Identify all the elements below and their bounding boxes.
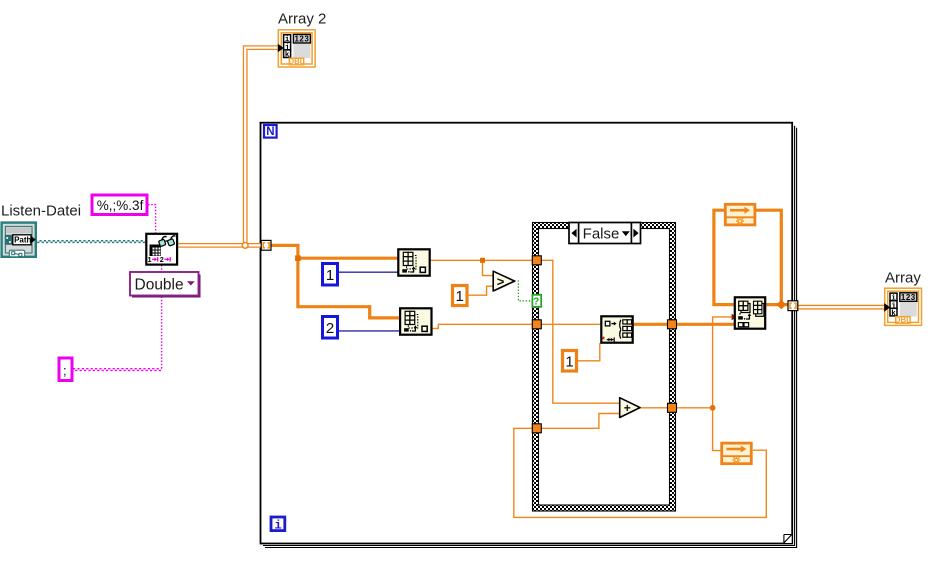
index array node 2 [400, 308, 431, 334]
wire add output to junction, feedback node and build array [640, 317, 735, 451]
array indicator Array [885, 288, 922, 325]
junction dot [710, 405, 716, 411]
wire VI to Double ring (magenta dotted) [161, 265, 163, 272]
junction dot [480, 258, 485, 263]
svg-text:123: 123 [294, 34, 309, 43]
wire inside case from top tunnel to add node [541, 260, 620, 403]
case tunnel top-left [532, 256, 541, 265]
numeric constant 1 (orange, in case) [563, 351, 577, 372]
case tunnel right-mid [668, 320, 677, 329]
for loop iteration terminal i [271, 517, 285, 533]
wire path (teal dashed) Listen-Datei to VI [35, 241, 146, 243]
svg-text:Array: Array [885, 270, 921, 287]
case selector label "False" [569, 223, 641, 244]
svg-text:i: i [274, 519, 281, 533]
wire build array output to loop tunnel and feedback node 1 (thick) [756, 210, 790, 304]
svg-text:>: > [497, 274, 505, 289]
for loop count terminal N [264, 125, 277, 138]
wire boolean (green dotted) comparator to case selector terminal [515, 281, 533, 301]
index array node 1 [398, 249, 429, 275]
for loop N frame [261, 123, 797, 548]
svg-text:False: False [583, 225, 620, 242]
svg-text:Array 2: Array 2 [278, 10, 326, 27]
VI Read Delimited Spreadsheet U1 [146, 234, 177, 265]
wire insert node output (thick) to right tunnel and build array [633, 323, 735, 326]
svg-text:;: ; [63, 363, 67, 378]
svg-text:?: ? [533, 297, 539, 308]
ring constant Double [130, 272, 200, 297]
wire lower-left tunnel to add node second input [541, 414, 620, 429]
wire orange constant 1 to comparator [468, 286, 493, 295]
wire feedback node 2 output around bottom to case tunnel [514, 428, 767, 517]
feedback node 2 (bottom) [722, 443, 752, 464]
wire blue constant 1 to index array 1 [338, 271, 398, 273]
case selector terminal ? [532, 295, 541, 308]
svg-text:N: N [266, 126, 274, 138]
wire string constant %.3f to VI (magenta dotted) [148, 205, 156, 234]
case tunnel right-lower [668, 403, 677, 412]
case tunnel mid-left [532, 320, 541, 329]
build array node [735, 297, 765, 328]
wire 2D array (orange double) VI output to Array 2 and loop tunnel [178, 48, 279, 246]
svg-text:2: 2 [326, 320, 334, 337]
wire feedback node 1 left to build array top input (thick) [714, 210, 735, 304]
wire branch down to comparator [483, 260, 494, 275]
path control Listen-Datei terminal [2, 223, 36, 257]
add node (increment) [620, 398, 640, 418]
junction dot [295, 255, 301, 261]
svg-text:1: 1 [148, 255, 152, 264]
svg-text:1: 1 [565, 353, 573, 370]
svg-text:+: + [624, 401, 631, 415]
svg-text:%,;%.3f: %,;%.3f [97, 198, 144, 213]
svg-text:Path: Path [14, 236, 31, 245]
wire constant 1 to insert node index input [577, 343, 600, 361]
svg-text:Double: Double [135, 276, 184, 293]
junction diamond [776, 300, 786, 310]
svg-text:1: 1 [326, 267, 334, 284]
array indicator Array 2 [278, 30, 315, 67]
wire Double ring down to semicolon constant (magenta) [73, 297, 162, 371]
insert into array node [601, 316, 632, 344]
wire index array 1 output to case tunnel [430, 259, 533, 261]
dark red arrow into build array middle input [732, 314, 737, 321]
loop tunnel left (auto-indexing) [261, 240, 271, 250]
case tunnel bottom-left [532, 424, 541, 433]
svg-text:1: 1 [456, 288, 464, 305]
junction dot on 2D wire [242, 243, 248, 249]
string constant %,;%.3f [92, 195, 147, 215]
wire 1D thick from left tunnel to index array 1 and 2 [271, 245, 400, 318]
wire tunnel to insert into array node [541, 323, 601, 325]
numeric constant 1 (orange DBL) [453, 286, 468, 306]
numeric constant 2 (blue) [323, 317, 338, 339]
numeric constant 1 (blue) [323, 264, 338, 286]
feedback node 1 (top) [725, 204, 755, 225]
string constant semicolon [59, 358, 72, 381]
wire blue constant 2 to index array 2 [338, 330, 400, 332]
svg-text:DBL: DBL [288, 57, 304, 66]
wire 2D array (double) loop tunnel to Array indicator [797, 305, 885, 310]
case structure checkered border [533, 223, 676, 512]
comparator greater-than Q1 [493, 271, 514, 291]
loop tunnel right (auto-indexing) [788, 301, 798, 311]
wire arrow into Array [884, 303, 890, 312]
for loop resize fold corner [784, 535, 792, 544]
wire arrow into Array 2 [278, 44, 284, 53]
svg-text:Listen-Datei: Listen-Datei [1, 203, 81, 220]
wire index array 2 output to case lower tunnel [432, 324, 533, 328]
svg-text:2: 2 [160, 255, 164, 264]
